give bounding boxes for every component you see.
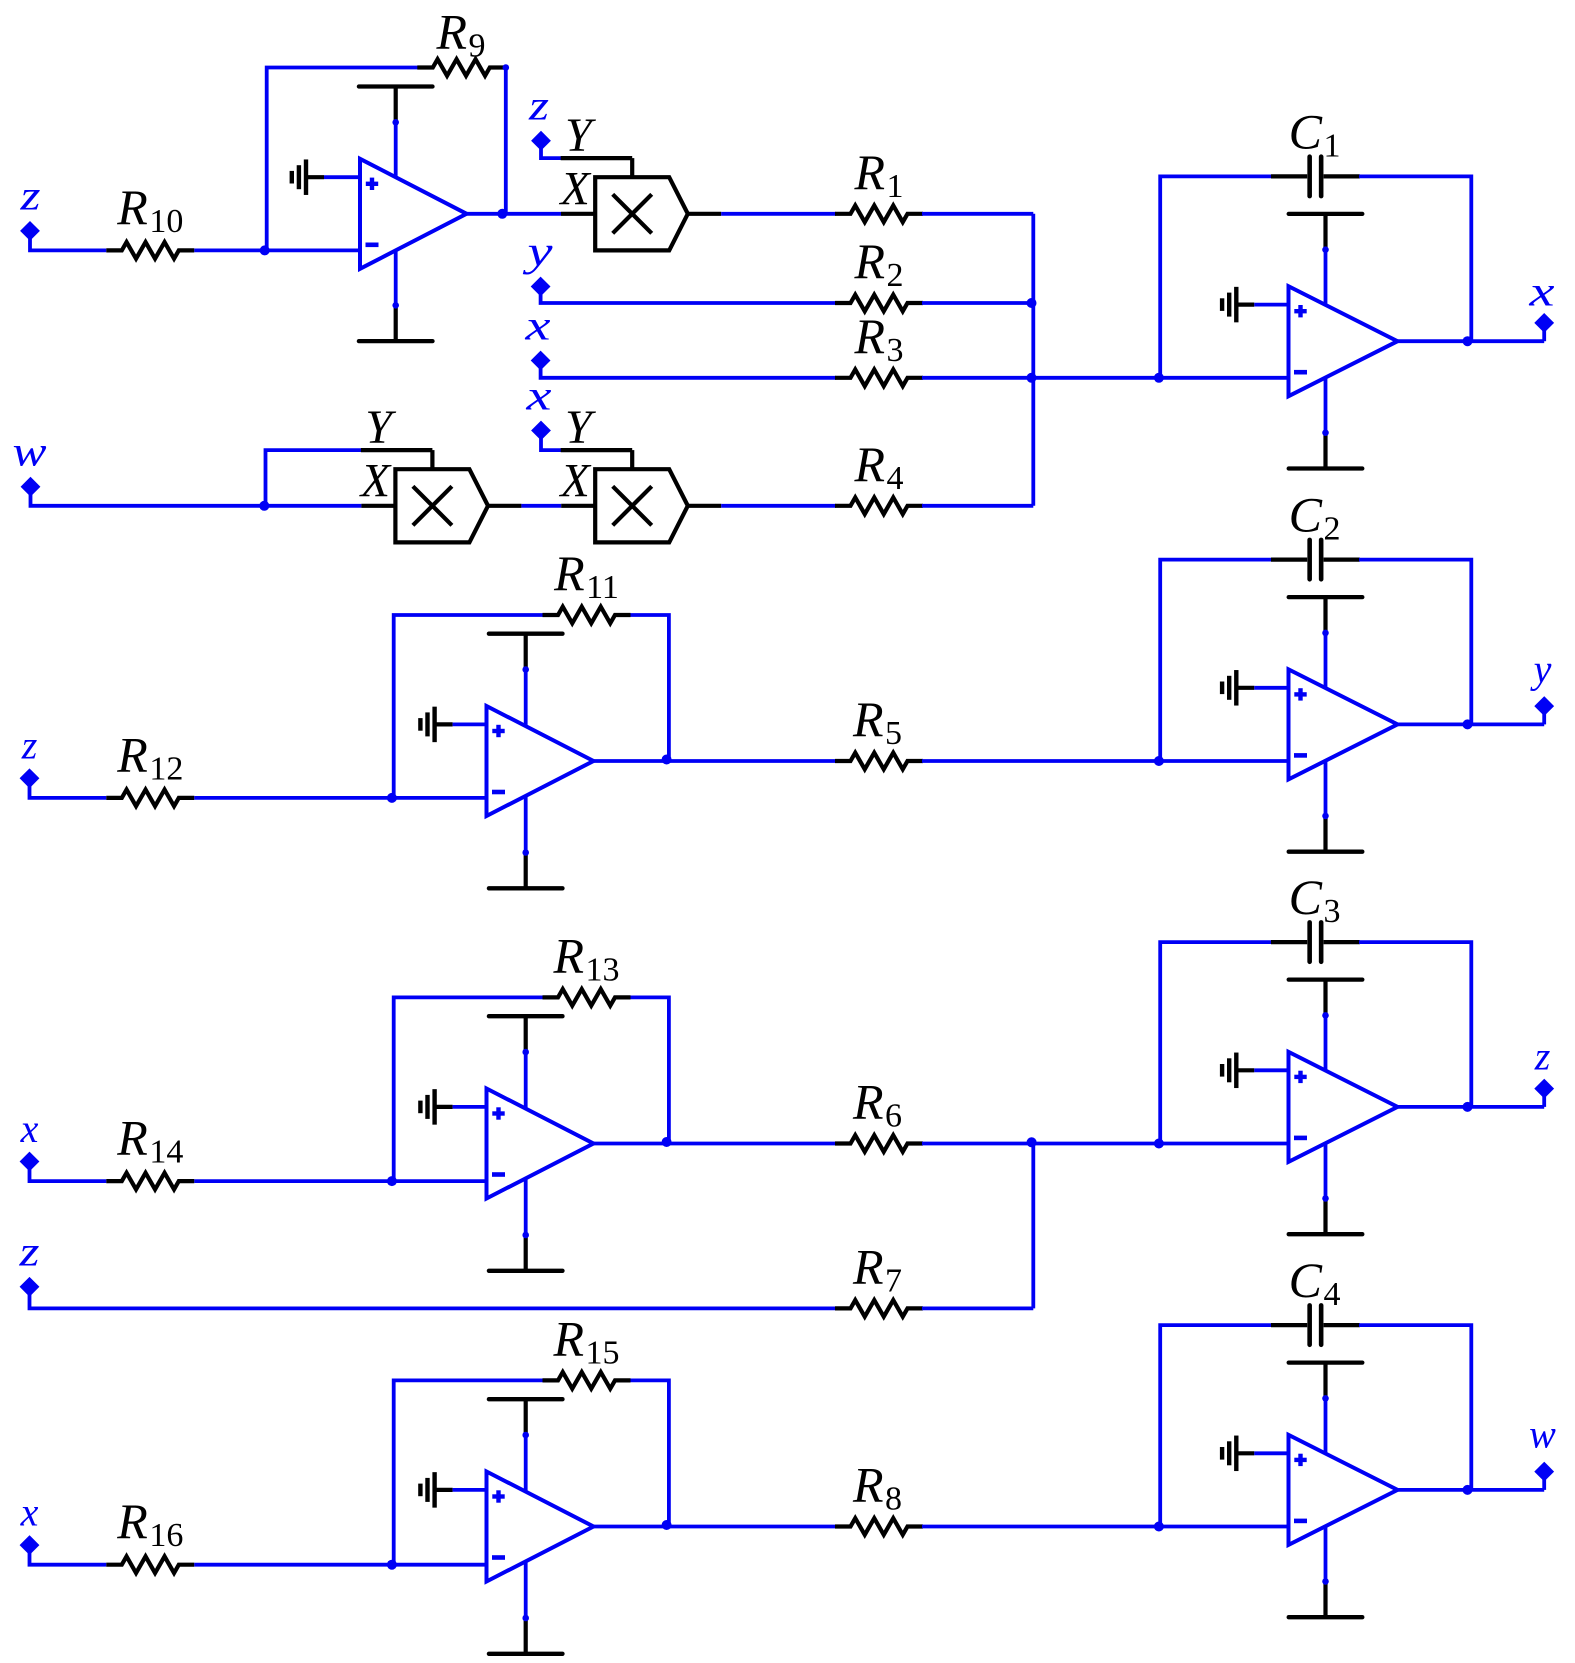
- node junction U1 output/feedback: [497, 209, 507, 219]
- wire y terminal to R2: [541, 292, 836, 303]
- multiplier M2 (w*w): [359, 401, 522, 543]
- wire x terminal to R3: [541, 366, 836, 378]
- multiplier M3 (x*w^2): [559, 401, 722, 543]
- node x (input terminal, R3): [524, 303, 551, 369]
- wire w branch to M2 Y: [266, 450, 362, 506]
- ground at + input integrator 4: [1222, 1436, 1288, 1472]
- wire R4 to summing bus: [922, 504, 1033, 508]
- wire integrator output bank 3: [1398, 1105, 1545, 1109]
- wire feedback loop right leg bank 3: [631, 997, 669, 1143]
- op-amp U6 (integrator 3): [1289, 1052, 1398, 1162]
- wire R12 to op-amp inverting input: [194, 796, 486, 800]
- node w (output terminal, bank 4): [1529, 1412, 1556, 1490]
- node y (output terminal, bank 2): [1530, 647, 1554, 725]
- wire z to M1 Y lead: [541, 146, 562, 158]
- wire feedback loop right leg bank 4: [631, 1380, 669, 1526]
- node y (input terminal, R2): [522, 229, 553, 295]
- ground at + input integrator 3: [1222, 1053, 1288, 1089]
- svg-text:w: w: [1529, 1412, 1556, 1457]
- wire U2 output: [1398, 339, 1545, 343]
- wire R8 to integrator: [922, 1525, 1289, 1529]
- ground at + input inverter bank 3: [420, 1089, 486, 1125]
- resistor R10: [106, 179, 194, 259]
- svg-text:y: y: [1530, 647, 1552, 692]
- node z (input terminal to M1 Y): [528, 84, 550, 150]
- wire feedback loop right leg bank 2: [631, 615, 669, 761]
- svg-text:Y: Y: [565, 401, 596, 454]
- wire feedback loop left/top bank 4: [394, 1380, 544, 1564]
- power rails integrator 3: [1289, 980, 1363, 1235]
- node junction output/feedback bank 4: [662, 1520, 672, 1530]
- wire feedback loop left/top bank 3: [394, 997, 544, 1181]
- node junction integrator output bank 2: [1463, 719, 1473, 729]
- node junction input/feedback bank 2: [387, 793, 397, 803]
- resistor R15: [543, 1310, 631, 1388]
- node junction w/M2 Y branch: [259, 501, 269, 511]
- node junction input/feedback bank 4: [387, 1560, 397, 1570]
- wire capacitor to right leg bank 3: [1359, 942, 1471, 1107]
- resistor R9: [417, 4, 505, 76]
- op-amp U7 (inverter, bank 4): [487, 1472, 594, 1582]
- node junction U2 output/feedback: [1463, 336, 1473, 346]
- wire integrator feedback left leg bank 3: [1160, 942, 1272, 1143]
- svg-text:Y: Y: [565, 109, 596, 162]
- capacitor C3: [1271, 869, 1360, 962]
- power rails inverter bank 3: [489, 1016, 563, 1271]
- node x (input terminal to M3 Y): [525, 373, 552, 439]
- resistor R3: [835, 308, 923, 386]
- wire R1 to summing bus: [922, 212, 1033, 216]
- svg-text:z: z: [21, 723, 38, 768]
- wire op-amp output to R6: [594, 1142, 837, 1146]
- wire R2 to summing bus: [922, 301, 1033, 305]
- wire input terminal stub bank 4: [30, 1551, 107, 1565]
- op-amp U4 (integrator 2): [1289, 669, 1398, 779]
- ground at U2 + input: [1222, 287, 1288, 323]
- resistor R11: [543, 545, 631, 623]
- wire z terminal stub: [30, 236, 106, 250]
- svg-text:X: X: [559, 454, 592, 507]
- capacitor C4: [1271, 1252, 1360, 1345]
- power rails inverter bank 4: [489, 1399, 563, 1654]
- resistor R2: [835, 233, 923, 311]
- wire R3 to integrator U2: [922, 376, 1289, 380]
- node x (input terminal, bank 3): [20, 1106, 39, 1171]
- wire C1 to right leg: [1359, 176, 1471, 341]
- wire capacitor to right leg bank 2: [1359, 560, 1471, 725]
- node z (output terminal, bank 3): [1534, 1034, 1554, 1107]
- op-amp U1 (inverter, bank 1): [360, 159, 467, 269]
- node junction integrator input bank 2: [1154, 756, 1164, 766]
- power rails integrator 2: [1289, 597, 1363, 852]
- wire integrator feedback left leg bank 2: [1160, 560, 1272, 761]
- op-amp U8 (integrator 4): [1289, 1435, 1398, 1545]
- node z (input terminal, bank 1): [19, 174, 40, 240]
- svg-text:w: w: [13, 430, 47, 476]
- node z (input terminal, bank 2): [20, 723, 38, 788]
- ground at U1 + input: [292, 159, 360, 195]
- resistor R5: [835, 691, 923, 769]
- wire R14 to op-amp inverting input: [194, 1179, 486, 1183]
- resistor R7: [835, 1238, 923, 1316]
- wire M1 output to R1: [721, 212, 836, 216]
- wire input terminal stub bank 3: [30, 1167, 107, 1181]
- node junction integrator input bank 3: [1154, 1139, 1164, 1149]
- wire feedback loop left/top bank 2: [394, 615, 544, 798]
- power rails inverter bank 2: [489, 634, 563, 889]
- node junction bus/R3: [1027, 373, 1037, 383]
- wire op-amp output to R5: [594, 759, 837, 763]
- wire integrator U2 feedback left leg: [1160, 176, 1272, 377]
- svg-text:x: x: [524, 303, 551, 349]
- wire M2 output to M3 input: [521, 504, 561, 508]
- ground at + input inverter bank 2: [420, 707, 486, 743]
- svg-text:z: z: [18, 1230, 39, 1276]
- node junction R10/feedback: [260, 245, 270, 255]
- wire op-amp output to R8: [594, 1525, 837, 1529]
- power rails U1: [359, 87, 433, 342]
- svg-text:x: x: [1528, 269, 1555, 315]
- wire capacitor to right leg bank 4: [1359, 1325, 1471, 1490]
- node junction integrator output bank 3: [1463, 1102, 1473, 1112]
- node junction output/feedback bank 2: [662, 755, 672, 765]
- svg-text:y: y: [522, 229, 553, 275]
- svg-text:x: x: [20, 1489, 39, 1534]
- wire M3 output to R4: [721, 504, 836, 508]
- wire integrator output bank 2: [1398, 723, 1545, 727]
- wire w terminal to M2: [31, 492, 362, 506]
- wire integrator feedback left leg bank 4: [1160, 1325, 1272, 1526]
- svg-text:x: x: [525, 373, 552, 419]
- resistor R4: [835, 436, 923, 514]
- node junction R6/R7: [1027, 1137, 1037, 1147]
- power rails integrator 4: [1289, 1363, 1363, 1618]
- node z (input terminal, R7): [18, 1230, 39, 1296]
- svg-text:z: z: [19, 174, 40, 220]
- node junction output/feedback bank 3: [662, 1137, 672, 1147]
- wire R10 to op-amp U1 inverting input: [194, 248, 360, 252]
- node junction input/C1 loop: [1154, 373, 1164, 383]
- wire input terminal stub bank 2: [30, 784, 107, 798]
- wire R6 to integrator: [922, 1142, 1289, 1146]
- resistor R14: [106, 1110, 194, 1190]
- node junction bus/R2: [1027, 298, 1037, 308]
- node x (output terminal): [1528, 269, 1555, 341]
- resistor R12: [106, 726, 194, 806]
- node junction input/feedback bank 3: [387, 1176, 397, 1186]
- ground at + input inverter bank 4: [420, 1472, 486, 1508]
- wire summing bus vertical: [1031, 214, 1035, 506]
- node junction integrator output bank 4: [1463, 1485, 1473, 1495]
- svg-text:z: z: [1534, 1034, 1551, 1079]
- op-amp U5 (inverter, bank 3): [487, 1089, 594, 1199]
- svg-text:X: X: [359, 454, 392, 507]
- ground at + input integrator 2: [1222, 670, 1288, 706]
- wire R16 to op-amp inverting input: [194, 1563, 486, 1567]
- svg-text:Y: Y: [365, 401, 396, 454]
- wire integrator output bank 4: [1398, 1488, 1545, 1492]
- wire R7 to riser: [922, 1307, 1033, 1311]
- wire x to M3 Y lead: [541, 436, 562, 450]
- multiplier M1 (z*U1out): [559, 109, 722, 251]
- resistor R13: [543, 927, 631, 1005]
- wire feedback loop U1 left/top: [267, 68, 419, 251]
- capacitor C1: [1271, 103, 1360, 196]
- svg-text:z: z: [528, 84, 549, 130]
- wire z terminal to R7: [30, 1292, 837, 1308]
- resistor R1: [835, 144, 923, 222]
- svg-text:X: X: [559, 162, 592, 215]
- node w (input terminal, bank 1): [13, 430, 47, 496]
- wire R5 to integrator: [922, 759, 1289, 763]
- resistor R6: [835, 1074, 923, 1152]
- node x (input terminal, bank 4): [20, 1489, 39, 1554]
- resistor R16: [106, 1493, 194, 1573]
- op-amp U3 (inverter, bank 2): [487, 706, 594, 816]
- wire feedback loop U1 right leg: [503, 64, 510, 214]
- svg-text:x: x: [20, 1106, 39, 1151]
- node junction integrator input bank 4: [1154, 1522, 1164, 1532]
- capacitor C2: [1271, 487, 1360, 580]
- op-amp U2 (integrator 1): [1289, 286, 1398, 396]
- wire R7 riser: [1031, 1144, 1035, 1309]
- wire U1 output: [467, 212, 561, 216]
- power rails U2: [1289, 214, 1363, 469]
- resistor R8: [835, 1457, 923, 1535]
